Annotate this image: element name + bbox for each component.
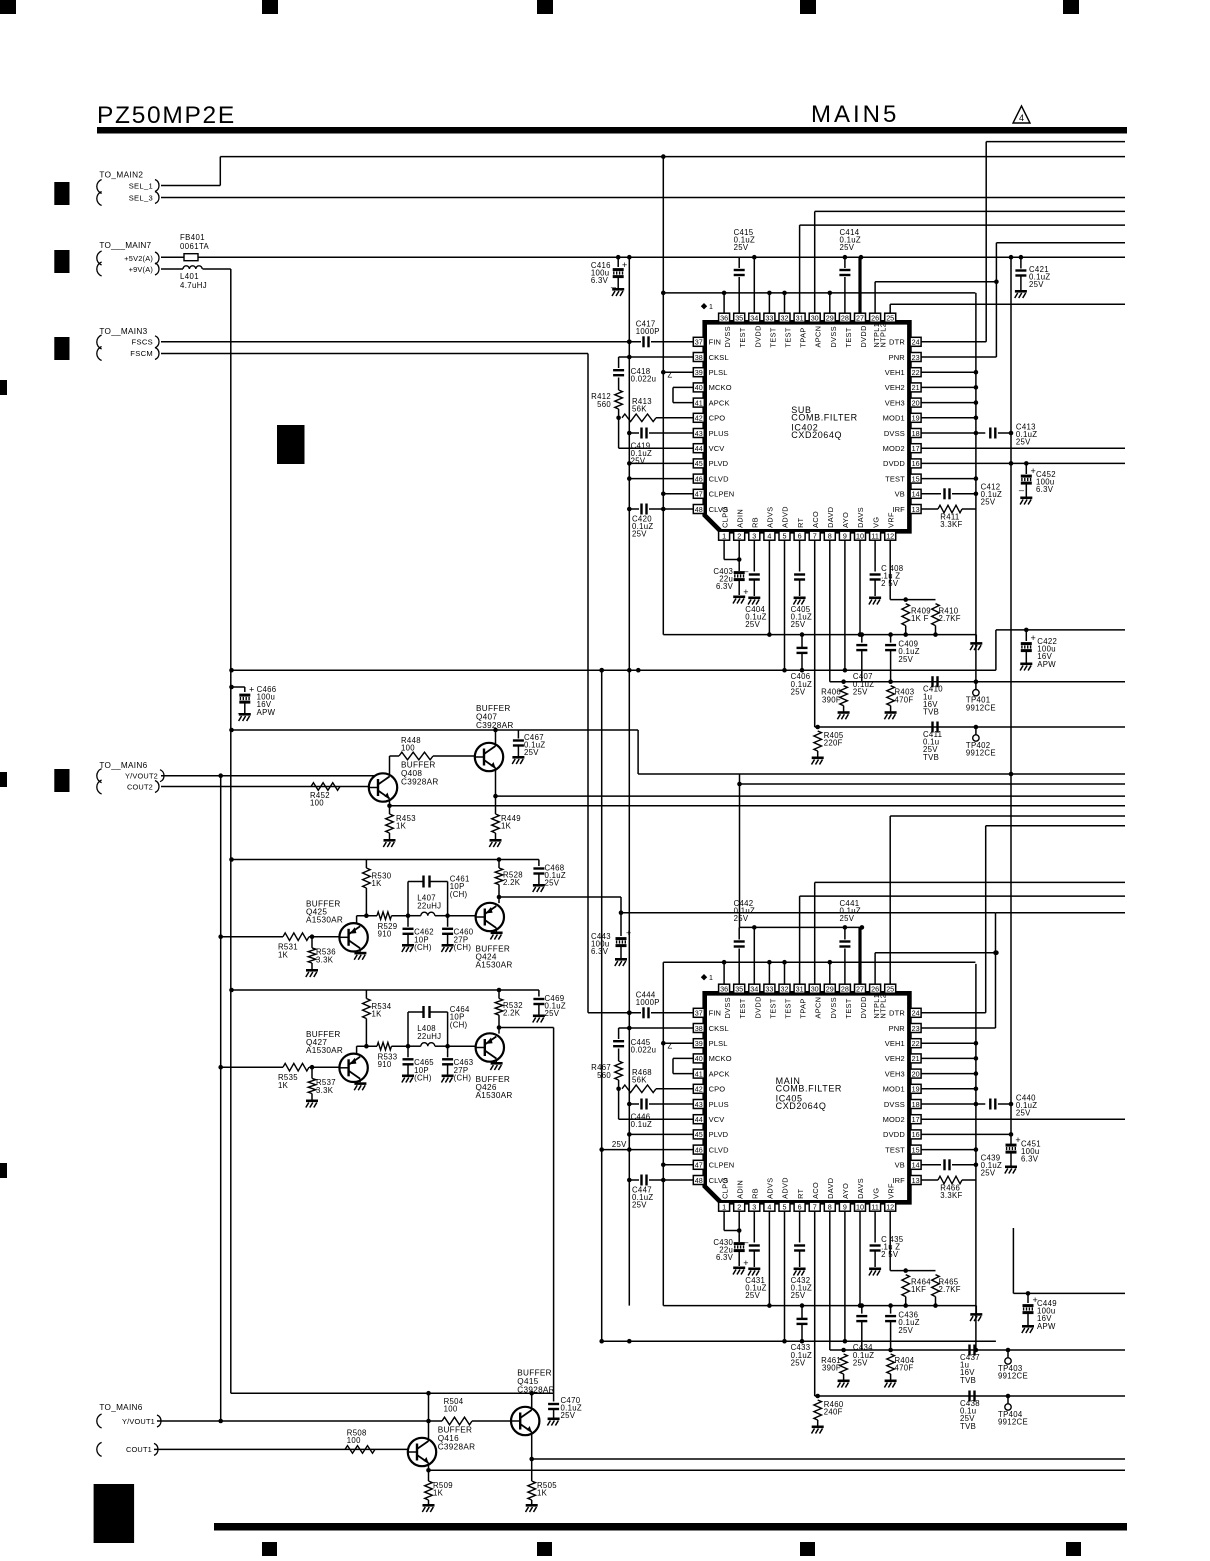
svg-text:100: 100 xyxy=(401,744,415,753)
svg-text:1: 1 xyxy=(709,975,713,982)
svg-text:TEST: TEST xyxy=(844,327,853,347)
svg-text:(CH): (CH) xyxy=(414,1073,432,1082)
svg-text:RB: RB xyxy=(751,1188,760,1199)
svg-text:22uHJ: 22uHJ xyxy=(417,1032,441,1041)
svg-text:6: 6 xyxy=(798,1203,802,1212)
svg-text:0.022u: 0.022u xyxy=(631,1046,657,1055)
svg-text:DVDD: DVDD xyxy=(753,996,762,1018)
svg-text:7: 7 xyxy=(813,1203,817,1212)
svg-text:34: 34 xyxy=(750,985,758,994)
svg-text:(CH): (CH) xyxy=(454,943,472,952)
svg-text:45: 45 xyxy=(695,1130,703,1139)
svg-text:FSCS: FSCS xyxy=(132,338,153,347)
svg-text:DVSS: DVSS xyxy=(723,326,732,347)
svg-text:DVDD: DVDD xyxy=(883,1130,905,1139)
svg-text:25V: 25V xyxy=(632,1201,647,1210)
svg-text:23: 23 xyxy=(912,353,920,362)
svg-text:DVSS: DVSS xyxy=(884,429,905,438)
svg-text:1K: 1K xyxy=(396,822,407,831)
svg-text:20: 20 xyxy=(912,1069,920,1078)
svg-text:APCN: APCN xyxy=(814,326,823,348)
svg-text:ADVS: ADVS xyxy=(766,1177,775,1198)
svg-text:ACO: ACO xyxy=(811,511,820,528)
svg-text:L401: L401 xyxy=(180,272,199,281)
svg-text:1: 1 xyxy=(722,532,726,541)
svg-text:_: _ xyxy=(1018,481,1025,491)
svg-text:RB: RB xyxy=(751,517,760,528)
svg-text:TO__MAIN3: TO__MAIN3 xyxy=(99,327,147,336)
svg-text:(CH): (CH) xyxy=(450,1020,468,1029)
svg-text:6.3V: 6.3V xyxy=(591,947,609,956)
svg-text:2.7KF: 2.7KF xyxy=(939,1285,961,1294)
svg-text:100: 100 xyxy=(347,1436,361,1445)
svg-text:DAVD: DAVD xyxy=(826,507,835,528)
svg-text:PLVD: PLVD xyxy=(709,1130,729,1139)
svg-text:46: 46 xyxy=(695,474,703,483)
svg-text:PLSL: PLSL xyxy=(709,1039,728,1048)
svg-text:26: 26 xyxy=(871,314,879,323)
svg-text:VEH2: VEH2 xyxy=(885,383,905,392)
svg-text:10: 10 xyxy=(856,1203,864,1212)
svg-text:25V: 25V xyxy=(981,1169,996,1178)
svg-text:25V: 25V xyxy=(545,1009,560,1018)
svg-text:CPO: CPO xyxy=(709,414,726,423)
svg-text:TO__MAIN6: TO__MAIN6 xyxy=(99,761,147,770)
svg-text:CLVD: CLVD xyxy=(709,1145,729,1154)
svg-text:100: 100 xyxy=(310,799,324,808)
svg-text:DAVS: DAVS xyxy=(856,507,865,528)
svg-text:37: 37 xyxy=(695,338,703,347)
svg-text:17: 17 xyxy=(912,444,920,453)
svg-text:1K: 1K xyxy=(537,1489,548,1498)
svg-text:NTPL2: NTPL2 xyxy=(878,994,887,1019)
svg-text:44: 44 xyxy=(695,1115,703,1124)
svg-text:13: 13 xyxy=(912,1176,920,1185)
svg-text:4: 4 xyxy=(1019,113,1024,123)
svg-text:0061TA: 0061TA xyxy=(180,242,210,251)
svg-text:TPAP: TPAP xyxy=(799,327,808,347)
svg-text:1K: 1K xyxy=(501,822,512,831)
svg-text:APCK: APCK xyxy=(709,1069,730,1078)
svg-text:DTR: DTR xyxy=(889,338,905,347)
svg-text:41: 41 xyxy=(695,398,703,407)
svg-text:4: 4 xyxy=(767,1203,771,1212)
svg-text:ADVD: ADVD xyxy=(781,1177,790,1199)
svg-text:22: 22 xyxy=(912,1039,920,1048)
svg-text:9912CE: 9912CE xyxy=(966,749,996,758)
svg-text:A1530AR: A1530AR xyxy=(306,1046,343,1055)
svg-text:PNR: PNR xyxy=(889,353,906,362)
svg-text:9912CE: 9912CE xyxy=(966,703,996,712)
svg-text:25V: 25V xyxy=(791,1291,806,1300)
svg-text:2.2K: 2.2K xyxy=(503,1009,521,1018)
svg-text:37: 37 xyxy=(695,1009,703,1018)
svg-text:27: 27 xyxy=(856,314,864,323)
svg-text:24: 24 xyxy=(912,338,920,347)
svg-text:1K F: 1K F xyxy=(911,614,929,623)
svg-text:910: 910 xyxy=(378,930,392,939)
svg-text:CLPEN: CLPEN xyxy=(709,1161,735,1170)
svg-text:21: 21 xyxy=(912,1054,920,1063)
svg-text:35: 35 xyxy=(735,985,743,994)
svg-text:42: 42 xyxy=(695,414,703,423)
svg-text:29: 29 xyxy=(826,314,834,323)
svg-text:25V: 25V xyxy=(734,243,749,252)
svg-text:DVDD: DVDD xyxy=(753,325,762,347)
svg-text:PLSL: PLSL xyxy=(709,368,728,377)
svg-text:560: 560 xyxy=(597,400,611,409)
svg-text:910: 910 xyxy=(378,1060,392,1069)
svg-text:APW: APW xyxy=(1037,1322,1056,1331)
svg-text:28: 28 xyxy=(841,314,849,323)
svg-text:100: 100 xyxy=(444,1405,458,1414)
svg-text:CXD2064Q: CXD2064Q xyxy=(791,430,842,440)
svg-text:VB: VB xyxy=(895,1161,905,1170)
svg-text:_: _ xyxy=(742,1233,749,1243)
svg-text:IRF: IRF xyxy=(892,1176,905,1185)
svg-text:DVDD: DVDD xyxy=(883,459,905,468)
svg-text:44: 44 xyxy=(695,444,703,453)
svg-text:25V: 25V xyxy=(898,655,913,664)
svg-text:Y/VOUT2: Y/VOUT2 xyxy=(125,772,158,781)
svg-text:25V: 25V xyxy=(545,879,560,888)
svg-text:30: 30 xyxy=(811,314,819,323)
svg-text:3: 3 xyxy=(752,532,756,541)
svg-text:25V: 25V xyxy=(1016,1109,1031,1118)
svg-text:3.3KF: 3.3KF xyxy=(940,520,962,529)
svg-text:45: 45 xyxy=(695,459,703,468)
svg-text:29: 29 xyxy=(826,985,834,994)
svg-text:DVSS: DVSS xyxy=(829,326,838,347)
svg-text:1000P: 1000P xyxy=(636,998,660,1007)
svg-text:1KF: 1KF xyxy=(911,1285,926,1294)
svg-text:AYO: AYO xyxy=(841,512,850,528)
svg-text:TVB: TVB xyxy=(923,753,939,762)
svg-text:14: 14 xyxy=(912,490,920,499)
svg-text:12: 12 xyxy=(886,532,894,541)
svg-text:RT: RT xyxy=(796,517,805,528)
svg-text:CKSL: CKSL xyxy=(709,353,729,362)
svg-text:TEST: TEST xyxy=(784,327,793,347)
svg-text:48: 48 xyxy=(695,1176,703,1185)
svg-text:3.3KF: 3.3KF xyxy=(940,1191,962,1200)
svg-text:40: 40 xyxy=(695,383,703,392)
svg-text:PZ50MP2E: PZ50MP2E xyxy=(97,102,236,129)
svg-text:MAIN5: MAIN5 xyxy=(811,101,899,128)
svg-text:1: 1 xyxy=(709,304,713,311)
svg-text:TO_MAIN6: TO_MAIN6 xyxy=(99,1403,142,1412)
svg-text:1: 1 xyxy=(722,1203,726,1212)
svg-text:PNR: PNR xyxy=(889,1024,906,1033)
svg-text:3: 3 xyxy=(752,1203,756,1212)
svg-text:_: _ xyxy=(237,704,244,714)
svg-text:VEH2: VEH2 xyxy=(885,1054,905,1063)
svg-text:2: 2 xyxy=(737,1203,741,1212)
svg-text:IRF: IRF xyxy=(892,505,905,514)
svg-text:25: 25 xyxy=(886,314,894,323)
svg-text:ADIN: ADIN xyxy=(735,1180,744,1199)
svg-text:PLUS: PLUS xyxy=(709,429,729,438)
svg-text:VEH3: VEH3 xyxy=(885,1069,905,1078)
svg-text:4: 4 xyxy=(767,532,771,541)
svg-text:+: + xyxy=(626,928,631,938)
svg-text:25V: 25V xyxy=(791,1358,806,1367)
svg-text:35: 35 xyxy=(735,314,743,323)
svg-text:FB401: FB401 xyxy=(180,233,205,242)
svg-text:560: 560 xyxy=(597,1071,611,1080)
svg-text:SEL_3: SEL_3 xyxy=(129,193,153,202)
svg-text:6.3V: 6.3V xyxy=(716,1253,734,1262)
svg-text:15: 15 xyxy=(912,474,920,483)
svg-text:PLVD: PLVD xyxy=(709,459,729,468)
svg-text:25V: 25V xyxy=(561,1411,576,1420)
svg-text:FIN: FIN xyxy=(709,338,722,347)
svg-text:5: 5 xyxy=(783,1203,787,1212)
svg-text:22: 22 xyxy=(912,368,920,377)
svg-text:TEST: TEST xyxy=(738,998,747,1018)
svg-text:AYO: AYO xyxy=(841,1183,850,1199)
svg-text:38: 38 xyxy=(695,353,703,362)
svg-text:6.3V: 6.3V xyxy=(716,582,734,591)
svg-text:32: 32 xyxy=(781,985,789,994)
svg-text:56K: 56K xyxy=(632,1076,647,1085)
svg-text:22uHJ: 22uHJ xyxy=(417,901,441,910)
svg-text:0.1uZ: 0.1uZ xyxy=(631,1120,652,1129)
svg-text:ADVS: ADVS xyxy=(766,506,775,527)
svg-text:A1530AR: A1530AR xyxy=(306,916,343,925)
svg-text:33: 33 xyxy=(765,314,773,323)
svg-text:VEH1: VEH1 xyxy=(885,1039,905,1048)
svg-text:CPO: CPO xyxy=(709,1085,726,1094)
svg-text:25V: 25V xyxy=(745,1291,760,1300)
svg-text:(CH): (CH) xyxy=(450,890,468,899)
svg-text:19: 19 xyxy=(912,414,920,423)
svg-text:3.3K: 3.3K xyxy=(316,1086,334,1095)
svg-text:TVB: TVB xyxy=(960,1422,976,1431)
svg-text:TO___MAIN7: TO___MAIN7 xyxy=(99,241,151,250)
svg-text:13: 13 xyxy=(912,505,920,514)
svg-text:COUT1: COUT1 xyxy=(126,1445,152,1454)
svg-text:VRF: VRF xyxy=(886,512,895,528)
svg-text:CLVS: CLVS xyxy=(709,1176,729,1185)
svg-text:25V: 25V xyxy=(612,1140,627,1149)
svg-text:C3928AR: C3928AR xyxy=(476,721,514,730)
svg-text:11: 11 xyxy=(871,532,878,541)
svg-text:6.3V: 6.3V xyxy=(1036,485,1054,494)
svg-text:0.022u: 0.022u xyxy=(631,375,657,384)
svg-text:3.3K: 3.3K xyxy=(316,955,334,964)
svg-text:25V: 25V xyxy=(840,243,855,252)
svg-text:220F: 220F xyxy=(824,739,843,748)
svg-text:TEST: TEST xyxy=(738,327,747,347)
svg-text:6.3V: 6.3V xyxy=(591,276,609,285)
svg-text:TEST: TEST xyxy=(885,1145,905,1154)
svg-text:+: + xyxy=(249,685,254,695)
svg-text:(CH): (CH) xyxy=(414,943,432,952)
svg-text:DVDD: DVDD xyxy=(859,325,868,347)
svg-text:16: 16 xyxy=(912,1130,920,1139)
svg-text:12: 12 xyxy=(886,1203,894,1212)
svg-text:CXD2064Q: CXD2064Q xyxy=(776,1101,827,1111)
svg-text:32: 32 xyxy=(781,314,789,323)
svg-text:ADIN: ADIN xyxy=(735,509,744,528)
svg-text:41: 41 xyxy=(695,1069,703,1078)
svg-text:(CH): (CH) xyxy=(454,1073,472,1082)
svg-text:25V: 25V xyxy=(631,457,646,466)
svg-text:5: 5 xyxy=(783,532,787,541)
svg-text:36: 36 xyxy=(720,314,728,323)
svg-text:9912CE: 9912CE xyxy=(998,1372,1028,1381)
svg-text:DVSS: DVSS xyxy=(723,997,732,1018)
svg-text:APCN: APCN xyxy=(814,997,823,1019)
svg-text:390F: 390F xyxy=(822,695,841,704)
svg-text:TEST: TEST xyxy=(768,327,777,347)
svg-text:+: + xyxy=(1031,466,1036,476)
svg-text:COMB.FILTER: COMB.FILTER xyxy=(776,1084,842,1094)
svg-text:1K: 1K xyxy=(278,1081,289,1090)
svg-text:A1530AR: A1530AR xyxy=(476,961,513,970)
svg-text:25V: 25V xyxy=(791,687,806,696)
svg-text:TPAP: TPAP xyxy=(799,998,808,1018)
svg-text:40: 40 xyxy=(695,1054,703,1063)
svg-text:PLUS: PLUS xyxy=(709,1100,729,1109)
svg-text:CLPEN: CLPEN xyxy=(709,490,735,499)
svg-text:16: 16 xyxy=(912,459,920,468)
svg-text:APW: APW xyxy=(257,708,276,717)
svg-text:30: 30 xyxy=(811,985,819,994)
svg-text:NTPL2: NTPL2 xyxy=(878,323,887,348)
svg-text:21: 21 xyxy=(912,383,920,392)
svg-text:1K: 1K xyxy=(372,879,383,888)
svg-text:+: + xyxy=(1031,633,1036,643)
svg-text:24: 24 xyxy=(912,1009,920,1018)
svg-text:17: 17 xyxy=(912,1115,920,1124)
svg-text:VB: VB xyxy=(895,490,905,499)
svg-text:VG: VG xyxy=(871,517,880,528)
svg-text:DAVS: DAVS xyxy=(856,1178,865,1199)
svg-text:15: 15 xyxy=(912,1145,920,1154)
svg-text:TEST: TEST xyxy=(844,998,853,1018)
svg-text:MCKO: MCKO xyxy=(709,383,732,392)
svg-text:VRF: VRF xyxy=(886,1183,895,1199)
svg-text:TVB: TVB xyxy=(923,708,939,717)
svg-text:MCKO: MCKO xyxy=(709,1054,732,1063)
svg-text:18: 18 xyxy=(912,429,920,438)
svg-text:FIN: FIN xyxy=(709,1009,722,1018)
svg-text:1K: 1K xyxy=(278,950,289,959)
svg-text:_: _ xyxy=(742,562,749,572)
svg-text:4.7uHJ: 4.7uHJ xyxy=(180,281,207,290)
svg-text:390F: 390F xyxy=(822,1364,841,1373)
svg-text:CKSL: CKSL xyxy=(709,1024,729,1033)
svg-text:VEH1: VEH1 xyxy=(885,368,905,377)
svg-text:VG: VG xyxy=(871,1188,880,1199)
svg-text:36: 36 xyxy=(720,985,728,994)
svg-text:8: 8 xyxy=(828,1203,832,1212)
svg-text:18: 18 xyxy=(912,1100,920,1109)
svg-text:6: 6 xyxy=(798,532,802,541)
svg-text:VEH3: VEH3 xyxy=(885,398,905,407)
svg-text:COMB.FILTER: COMB.FILTER xyxy=(791,413,857,423)
svg-text:TO_MAIN2: TO_MAIN2 xyxy=(99,171,143,180)
svg-text:25V: 25V xyxy=(898,1326,913,1335)
svg-text:48: 48 xyxy=(695,505,703,514)
svg-text:56K: 56K xyxy=(632,405,647,414)
svg-text:VCV: VCV xyxy=(709,444,725,453)
svg-text:RT: RT xyxy=(796,1188,805,1199)
svg-text:2: 2 xyxy=(737,532,741,541)
svg-text:14: 14 xyxy=(912,1161,920,1170)
svg-text:+9V(A): +9V(A) xyxy=(129,265,153,274)
svg-text:470F: 470F xyxy=(895,1364,914,1373)
svg-text:43: 43 xyxy=(695,1100,703,1109)
svg-text:DAVD: DAVD xyxy=(826,1178,835,1199)
svg-text:31: 31 xyxy=(796,314,804,323)
svg-text:7: 7 xyxy=(813,532,817,541)
svg-text:23: 23 xyxy=(912,1024,920,1033)
svg-text:+: + xyxy=(1015,1135,1020,1145)
svg-text:Y/VOUT1: Y/VOUT1 xyxy=(122,1417,155,1426)
svg-text:6.3V: 6.3V xyxy=(1021,1155,1039,1164)
svg-text:34: 34 xyxy=(750,314,758,323)
svg-text:25V: 25V xyxy=(632,530,647,539)
svg-text:470F: 470F xyxy=(895,695,914,704)
svg-text:39: 39 xyxy=(695,368,703,377)
svg-text:APCK: APCK xyxy=(709,398,730,407)
svg-text:9912CE: 9912CE xyxy=(998,1418,1028,1427)
svg-text:10: 10 xyxy=(856,532,864,541)
svg-text:11: 11 xyxy=(871,1203,878,1212)
svg-text:28: 28 xyxy=(841,985,849,994)
svg-text:33: 33 xyxy=(765,985,773,994)
svg-text:MOD2: MOD2 xyxy=(883,444,905,453)
svg-text:A1530AR: A1530AR xyxy=(476,1091,513,1100)
svg-text:CLVS: CLVS xyxy=(709,505,729,514)
svg-text:MOD1: MOD1 xyxy=(883,1085,905,1094)
svg-text:C3928AR: C3928AR xyxy=(517,1386,555,1395)
svg-text:TEST: TEST xyxy=(885,474,905,483)
svg-text:2.7KF: 2.7KF xyxy=(939,614,961,623)
svg-text:TVB: TVB xyxy=(960,1376,976,1385)
svg-text:9: 9 xyxy=(843,1203,847,1212)
svg-text:DVDD: DVDD xyxy=(859,996,868,1018)
svg-text:DVSS: DVSS xyxy=(884,1100,905,1109)
svg-text:DVSS: DVSS xyxy=(829,997,838,1018)
svg-text:19: 19 xyxy=(912,1085,920,1094)
svg-text:43: 43 xyxy=(695,429,703,438)
svg-text:27: 27 xyxy=(856,985,864,994)
svg-text:20: 20 xyxy=(912,398,920,407)
svg-text:25V: 25V xyxy=(1016,438,1031,447)
svg-text:25V: 25V xyxy=(981,498,996,507)
svg-text:C3928AR: C3928AR xyxy=(401,778,439,787)
svg-text:25V: 25V xyxy=(734,914,749,923)
svg-text:ADVD: ADVD xyxy=(781,506,790,528)
svg-text:46: 46 xyxy=(695,1145,703,1154)
svg-text:SEL_1: SEL_1 xyxy=(129,181,153,190)
svg-text:APW: APW xyxy=(1037,660,1056,669)
svg-text:1K: 1K xyxy=(433,1489,444,1498)
svg-text:25V: 25V xyxy=(745,620,760,629)
svg-text:_: _ xyxy=(610,278,617,288)
svg-text:TEST: TEST xyxy=(768,998,777,1018)
svg-text:2.2K: 2.2K xyxy=(503,878,521,887)
svg-text:25V: 25V xyxy=(853,687,868,696)
svg-text:26: 26 xyxy=(871,985,879,994)
svg-text:VCV: VCV xyxy=(709,1115,725,1124)
svg-text:25V: 25V xyxy=(840,914,855,923)
svg-text:47: 47 xyxy=(695,490,703,499)
